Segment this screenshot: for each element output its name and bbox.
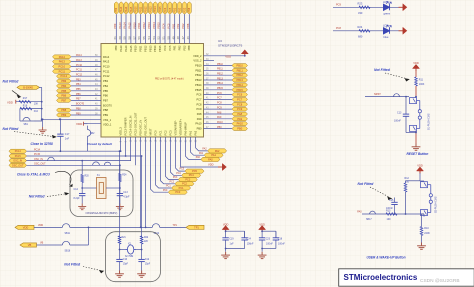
wire OSC_OUT pin down	[135, 137, 137, 165]
ground C23	[261, 249, 263, 252]
svg-text:R20: R20	[85, 176, 90, 178]
svg-text:PB12: PB12	[217, 73, 224, 76]
resistor R13	[386, 213, 397, 216]
svg-text:Not Fitted: Not Fitted	[3, 80, 20, 84]
wire PA2 to VDD arrow	[181, 137, 218, 167]
resistor R22	[140, 236, 143, 244]
svg-text:PA14: PA14	[123, 22, 127, 29]
top pin wires	[116, 14, 189, 43]
crystal circuit X2 box	[106, 232, 161, 282]
svg-text:PC8: PC8	[336, 27, 341, 30]
svg-text:R11: R11	[419, 79, 424, 82]
svg-text:54: 54	[147, 36, 151, 40]
svg-text:PC6: PC6	[196, 93, 202, 97]
svg-text:PA2: PA2	[194, 130, 198, 135]
rail C19	[226, 230, 245, 232]
svg-text:100: 100	[405, 181, 410, 184]
svg-text:PB11: PB11	[237, 68, 244, 72]
svg-text:PB2: PB2	[176, 23, 180, 28]
svg-text:PB8: PB8	[76, 107, 81, 110]
svg-text:PB0: PB0	[237, 127, 242, 131]
svg-text:VDD: VDD	[7, 100, 13, 104]
svg-text:PD1-OSC_OUT: PD1-OSC_OUT	[144, 117, 148, 136]
svg-text:BOOT0: BOOT0	[103, 103, 112, 107]
capacitor C13b	[415, 97, 417, 98]
svg-text:R12: R12	[405, 177, 410, 180]
svg-text:PB15: PB15	[157, 22, 161, 29]
svg-text:1uF: 1uF	[230, 242, 235, 245]
svg-text:PB0: PB0	[197, 127, 202, 131]
wires to lower staircase labels	[151, 137, 169, 192]
svg-text:PB10: PB10	[135, 6, 138, 13]
svg-text:PA8: PA8	[237, 112, 242, 116]
port PC1	[172, 186, 191, 190]
svg-text:PC5: PC5	[169, 7, 172, 12]
svg-text:PB8: PB8	[187, 45, 191, 50]
svg-text:R10: R10	[424, 227, 429, 230]
svg-text:8.2pF: 8.2pF	[74, 197, 81, 200]
svg-text:PA13: PA13	[76, 59, 82, 62]
svg-text:10K: 10K	[34, 103, 39, 106]
svg-text:PC9: PC9	[217, 106, 222, 109]
wire VSS pins to rail	[140, 137, 142, 227]
svg-text:PC10: PC10	[59, 65, 66, 69]
button B1	[410, 98, 422, 132]
svg-text:Not Fitted: Not Fitted	[3, 127, 20, 131]
left port labels and wires	[53, 54, 102, 117]
svg-text:OSC_IN: OSC_IN	[13, 160, 22, 163]
MCU top pin names	[114, 45, 191, 52]
svg-text:Not Fitted: Not Fitted	[64, 263, 81, 267]
ground C19	[225, 249, 227, 252]
svg-text:330: 330	[358, 11, 363, 15]
svg-text:F10: F10	[34, 110, 39, 113]
svg-text:PB9: PB9	[113, 23, 117, 28]
svg-text:VSSA/VREF-: VSSA/VREF-	[174, 120, 178, 136]
svg-text:PC10: PC10	[76, 64, 83, 67]
svg-text:PB4: PB4	[61, 84, 66, 88]
svg-text:blue: blue	[384, 35, 389, 39]
svg-text:PB0: PB0	[217, 126, 222, 129]
svg-text:CSDN @SU2GRB: CSDN @SU2GRB	[420, 278, 460, 284]
svg-text:C12: C12	[145, 259, 150, 261]
svg-text:SB11: SB11	[65, 233, 71, 235]
svg-text:PB13: PB13	[148, 45, 152, 52]
capacitor C12	[141, 250, 143, 260]
svg-text:PB4: PB4	[76, 83, 81, 86]
svg-text:680: 680	[358, 34, 363, 38]
wire VDD_1 short	[84, 123, 88, 125]
svg-text:PC0: PC0	[163, 190, 168, 192]
svg-text:46: 46	[186, 36, 190, 40]
svg-text:PC4: PC4	[189, 174, 194, 177]
capacitor C15	[394, 205, 396, 215]
curve arrow to crystal	[55, 171, 71, 185]
svg-text:PC2: PC2	[170, 181, 175, 183]
top net labels red	[113, 22, 190, 29]
port PC0	[168, 190, 187, 194]
svg-text:VDD: VDD	[76, 122, 83, 126]
svg-text:PB9: PB9	[103, 113, 108, 117]
wire NRST	[365, 96, 409, 98]
svg-text:green: green	[384, 12, 391, 16]
svg-text:PC11: PC11	[59, 69, 66, 73]
svg-text:PB14: PB14	[237, 83, 244, 87]
svg-text:VDDA/VREF+: VDDA/VREF+	[179, 119, 183, 136]
svg-text:PB13: PB13	[237, 78, 244, 82]
svg-text:PA14: PA14	[125, 6, 128, 13]
rail C23	[262, 230, 276, 232]
svg-text:PC8: PC8	[237, 102, 243, 106]
resistor R21	[118, 236, 121, 244]
wires to upper staircase	[186, 137, 201, 159]
svg-text:PA10: PA10	[217, 121, 223, 124]
ground X2 left	[115, 271, 124, 278]
svg-text:PB3: PB3	[103, 79, 108, 83]
svg-text:58: 58	[128, 36, 132, 40]
svg-text:PC6: PC6	[217, 92, 222, 95]
resistor R17	[16, 101, 42, 103]
svg-text:PC6: PC6	[237, 93, 243, 97]
svg-text:SB17: SB17	[366, 219, 372, 221]
svg-text:PC7: PC7	[196, 97, 202, 101]
svg-text:PB3: PB3	[76, 78, 81, 81]
svg-text:B2-PUSH-CMS: B2-PUSH-CMS	[435, 196, 438, 213]
svg-text:BOOT0: BOOT0	[76, 103, 85, 106]
svg-text:PC15-OSC32_OUT: PC15-OSC32_OUT	[134, 112, 138, 135]
svg-text:PB11: PB11	[217, 68, 223, 71]
LED circuit LD2	[333, 6, 399, 8]
capacitor C14	[79, 194, 85, 196]
LED circuit LD3	[333, 30, 399, 32]
svg-text:PC5: PC5	[192, 170, 197, 173]
svg-text:SB1: SB1	[24, 124, 29, 126]
svg-text:PA9: PA9	[197, 117, 202, 121]
svg-text:PB9: PB9	[76, 112, 81, 115]
svg-text:PB2: PB2	[179, 7, 182, 12]
svg-text:PD2: PD2	[182, 45, 186, 51]
svg-text:PB15: PB15	[237, 88, 244, 92]
svg-text:C16: C16	[123, 259, 128, 261]
svg-text:PA0: PA0	[208, 158, 213, 161]
capacitor C18	[275, 231, 277, 238]
svg-text:STMicroelectronics: STMicroelectronics	[344, 273, 418, 282]
svg-text:C13: C13	[123, 191, 128, 194]
power arrow	[399, 28, 407, 34]
wire PC15 pin down	[125, 137, 127, 156]
X1 connection wires	[82, 187, 96, 189]
wire battery net vertical	[41, 87, 43, 119]
svg-text:PC12: PC12	[76, 74, 83, 77]
svg-text:C18: C18	[278, 237, 283, 240]
svg-text:PB1: PB1	[171, 23, 175, 28]
svg-text:PB10: PB10	[195, 64, 202, 68]
svg-text:LD3: LD3	[383, 23, 388, 27]
svg-text:VB: VB	[40, 241, 44, 244]
svg-text:15pF: 15pF	[123, 264, 129, 266]
svg-text:PB14: PB14	[195, 83, 202, 87]
svg-text:100: 100	[387, 218, 392, 221]
port PC5	[185, 169, 204, 173]
svg-text:PA0: PA0	[357, 211, 362, 214]
MCU right pin names	[193, 54, 202, 131]
svg-text:PC14: PC14	[15, 150, 22, 153]
svg-text:C24: C24	[246, 237, 251, 240]
svg-text:PA8: PA8	[217, 111, 222, 114]
svg-text:PC4: PC4	[164, 7, 167, 12]
svg-text:PA1: PA1	[189, 130, 193, 135]
svg-text:60: 60	[118, 36, 122, 40]
svg-text:PA15: PA15	[130, 6, 133, 13]
svg-text:PB15: PB15	[217, 87, 224, 90]
wire VDD rail	[34, 226, 62, 228]
svg-text:PC14-OSC32_IN: PC14-OSC32_IN	[129, 115, 133, 135]
svg-text:PB15: PB15	[159, 6, 162, 13]
svg-text:PC1: PC1	[166, 186, 171, 188]
svg-text:VDD_1: VDD_1	[103, 123, 112, 127]
svg-text:C23: C23	[266, 237, 271, 240]
svg-text:PB8: PB8	[103, 108, 108, 112]
svg-text:PA14: PA14	[124, 45, 128, 52]
bottom wire reset	[406, 132, 416, 134]
svg-text:PB4: PB4	[103, 84, 108, 88]
svg-text:PA13: PA13	[119, 45, 123, 52]
svg-text:100nF: 100nF	[394, 120, 401, 123]
svg-text:PB7: PB7	[103, 98, 108, 102]
svg-text:100nF: 100nF	[266, 242, 273, 245]
svg-text:PC7: PC7	[237, 97, 243, 101]
svg-text:PB6: PB6	[61, 94, 66, 98]
svg-text:PB5: PB5	[61, 89, 66, 93]
svg-text:PA13: PA13	[120, 6, 123, 13]
resistor R24	[119, 174, 122, 182]
right pin wires, labels and ports	[204, 54, 248, 131]
wire to R10	[423, 214, 425, 217]
svg-text:R21: R21	[122, 237, 127, 239]
svg-text:VDD_2: VDD_2	[193, 54, 202, 58]
battery port B3004	[17, 86, 40, 90]
svg-text:PC4: PC4	[162, 23, 166, 29]
svg-text:PA0-WKUP: PA0-WKUP	[184, 122, 188, 136]
svg-text:PC5: PC5	[167, 23, 171, 29]
svg-text:PB7: PB7	[76, 98, 81, 101]
svg-text:B1-PUSH-CMS: B1-PUSH-CMS	[428, 113, 431, 130]
port PA1	[204, 153, 223, 157]
svg-text:PC5: PC5	[180, 169, 185, 171]
svg-text:VDD: VDD	[23, 226, 29, 230]
svg-text:PB6: PB6	[103, 94, 108, 98]
svg-text:B-3004D: B-3004D	[23, 86, 33, 89]
svg-text:R16: R16	[23, 104, 28, 107]
svg-text:PC9: PC9	[336, 3, 341, 6]
svg-text:PB14: PB14	[217, 82, 224, 85]
resistor R12	[406, 180, 421, 182]
svg-text:PD2: PD2	[181, 23, 185, 29]
svg-text:PB14: PB14	[153, 45, 157, 52]
svg-text:Not Fitted: Not Fitted	[374, 68, 391, 72]
svg-text:220K: 220K	[424, 232, 430, 235]
port VB second row	[20, 243, 37, 247]
svg-text:PB8: PB8	[61, 108, 66, 112]
svg-text:PB14: PB14	[154, 6, 157, 13]
svg-text:PB2: PB2	[178, 45, 182, 50]
svg-text:PC10: PC10	[103, 65, 110, 69]
title block	[339, 269, 474, 286]
svg-text:PB6: PB6	[76, 93, 81, 96]
svg-text:47: 47	[181, 36, 185, 40]
svg-text:PB8: PB8	[186, 23, 190, 28]
svg-text:PB9: PB9	[61, 113, 66, 117]
svg-text:VSS_2: VSS_2	[193, 59, 202, 63]
svg-text:PB9: PB9	[114, 45, 118, 50]
wire PA0 row	[362, 213, 424, 215]
svg-text:PC8: PC8	[217, 102, 222, 105]
svg-text:PC3: PC3	[185, 178, 190, 181]
svg-text:Closed by default: Closed by default	[87, 142, 113, 146]
crystal X2	[125, 245, 136, 254]
port TP1	[186, 225, 204, 229]
svg-text:15pF: 15pF	[145, 264, 151, 266]
svg-text:48: 48	[176, 36, 180, 40]
svg-text:PD2: PD2	[183, 7, 186, 12]
svg-text:PB7: PB7	[61, 98, 66, 102]
svg-text:56: 56	[137, 36, 141, 40]
wire OSC_IN pin down	[82, 137, 130, 161]
svg-text:PB3: PB3	[61, 79, 66, 83]
svg-text:R22: R22	[144, 237, 149, 239]
svg-text:53: 53	[152, 36, 156, 40]
svg-text:PC7: PC7	[217, 97, 222, 100]
svg-text:PB15: PB15	[195, 88, 202, 92]
svg-text:PA10: PA10	[195, 122, 202, 126]
svg-text:Close to 32768: Close to 32768	[31, 142, 54, 146]
OSC port labels left	[9, 148, 46, 167]
svg-text:PB10: PB10	[132, 22, 136, 29]
wire VB row	[37, 244, 63, 246]
svg-text:PC9: PC9	[237, 107, 243, 111]
svg-text:PC4: PC4	[176, 173, 181, 175]
svg-text:PA13: PA13	[103, 60, 110, 64]
svg-text:PB10: PB10	[237, 64, 244, 68]
svg-text:TP1: TP1	[173, 224, 178, 227]
bottom pin numbers	[121, 139, 198, 142]
svg-text:PB1: PB1	[174, 7, 177, 12]
svg-text:U3: U3	[218, 39, 222, 43]
svg-text:PC0: PC0	[154, 130, 158, 136]
solder bridge SB2 closed by default	[86, 126, 88, 130]
MCU left pin names	[103, 55, 112, 127]
crystal X1	[97, 178, 107, 199]
svg-text:C19: C19	[229, 237, 234, 240]
svg-text:PB9: PB9	[115, 7, 118, 12]
svg-text:PC2: PC2	[182, 183, 187, 186]
svg-text:PB13: PB13	[195, 78, 202, 82]
dashed arrow to C17	[14, 132, 56, 139]
svg-text:PC1: PC1	[159, 130, 163, 136]
svg-text:PC2: PC2	[164, 130, 168, 136]
svg-text:PA9: PA9	[237, 117, 242, 121]
svg-text:PA15: PA15	[128, 22, 132, 29]
capacitor C24	[244, 231, 246, 238]
svg-text:PA15: PA15	[129, 45, 133, 52]
svg-text:PB8: PB8	[188, 7, 191, 12]
svg-text:PA0: PA0	[196, 156, 201, 159]
ground user button	[417, 243, 426, 250]
svg-text:PA2: PA2	[215, 150, 220, 153]
svg-text:52: 52	[157, 36, 161, 40]
svg-text:C14: C14	[74, 188, 79, 191]
svg-text:100K: 100K	[419, 83, 425, 86]
svg-text:PB5: PB5	[103, 89, 108, 93]
svg-text:PA14: PA14	[103, 55, 110, 59]
svg-text:PC8: PC8	[196, 102, 202, 106]
capacitor C23	[261, 231, 263, 238]
svg-text:PC11: PC11	[76, 69, 82, 72]
svg-text:50: 50	[167, 36, 171, 40]
svg-text:PA1: PA1	[211, 154, 216, 157]
wire R16 left down	[19, 109, 21, 121]
svg-text:PB5: PB5	[76, 88, 81, 91]
svg-text:49: 49	[171, 36, 175, 40]
svg-text:NRST: NRST	[149, 128, 153, 135]
svg-text:PC12: PC12	[103, 74, 110, 78]
svg-text:PB12: PB12	[237, 73, 244, 77]
svg-text:PB13: PB13	[147, 22, 151, 29]
svg-text:PC4: PC4	[163, 45, 167, 51]
ground X2 right	[137, 271, 146, 278]
svg-text:PC13-TAMPER: PC13-TAMPER	[124, 117, 128, 135]
port PC3	[178, 178, 197, 182]
solder bridge SB1	[20, 120, 34, 122]
svg-text:OSC_OUT: OSC_OUT	[12, 164, 24, 167]
svg-text:PB10: PB10	[217, 63, 224, 66]
svg-text:PB12: PB12	[144, 6, 147, 13]
svg-text:VDD_3: VDD_3	[119, 127, 123, 136]
wires into box1	[81, 161, 83, 175]
svg-text:PD0-OSC_IN: PD0-OSC_IN	[139, 120, 143, 136]
svg-text:PA9: PA9	[217, 116, 222, 119]
svg-text:PC9: PC9	[196, 107, 202, 111]
svg-text:PA2: PA2	[202, 148, 207, 151]
svg-text:C15: C15	[389, 199, 394, 202]
svg-text:PC3: PC3	[169, 130, 173, 136]
wire to VBAT row	[34, 119, 60, 121]
svg-text:C13: C13	[397, 112, 402, 115]
ground X1 left	[78, 204, 86, 210]
svg-text:PB2 or BOOT1 (# 47 mode): PB2 or BOOT1 (# 47 mode)	[155, 77, 184, 80]
OSC wires	[27, 150, 120, 152]
resistor R10	[420, 227, 423, 236]
svg-text:51: 51	[162, 36, 166, 40]
resistor R16	[20, 108, 42, 110]
svg-text:PA8: PA8	[197, 112, 202, 116]
svg-text:R13: R13	[386, 209, 391, 212]
capacitor C19	[225, 231, 227, 238]
port PA0	[201, 157, 220, 161]
port PA2	[208, 149, 227, 153]
svg-text:PB1: PB1	[173, 45, 177, 50]
op-amp U3 MCU STM32F103RCT6	[101, 44, 204, 138]
LED LD3	[384, 25, 392, 34]
svg-text:NRST: NRST	[374, 93, 381, 96]
resistor R24	[359, 30, 370, 33]
svg-text:PA14: PA14	[59, 55, 66, 59]
svg-text:PA10: PA10	[237, 122, 244, 126]
svg-text:PC11: PC11	[103, 69, 110, 73]
svg-text:Not Fitted: Not Fitted	[358, 182, 375, 186]
svg-text:R24: R24	[122, 175, 127, 177]
power arrow	[399, 4, 407, 10]
